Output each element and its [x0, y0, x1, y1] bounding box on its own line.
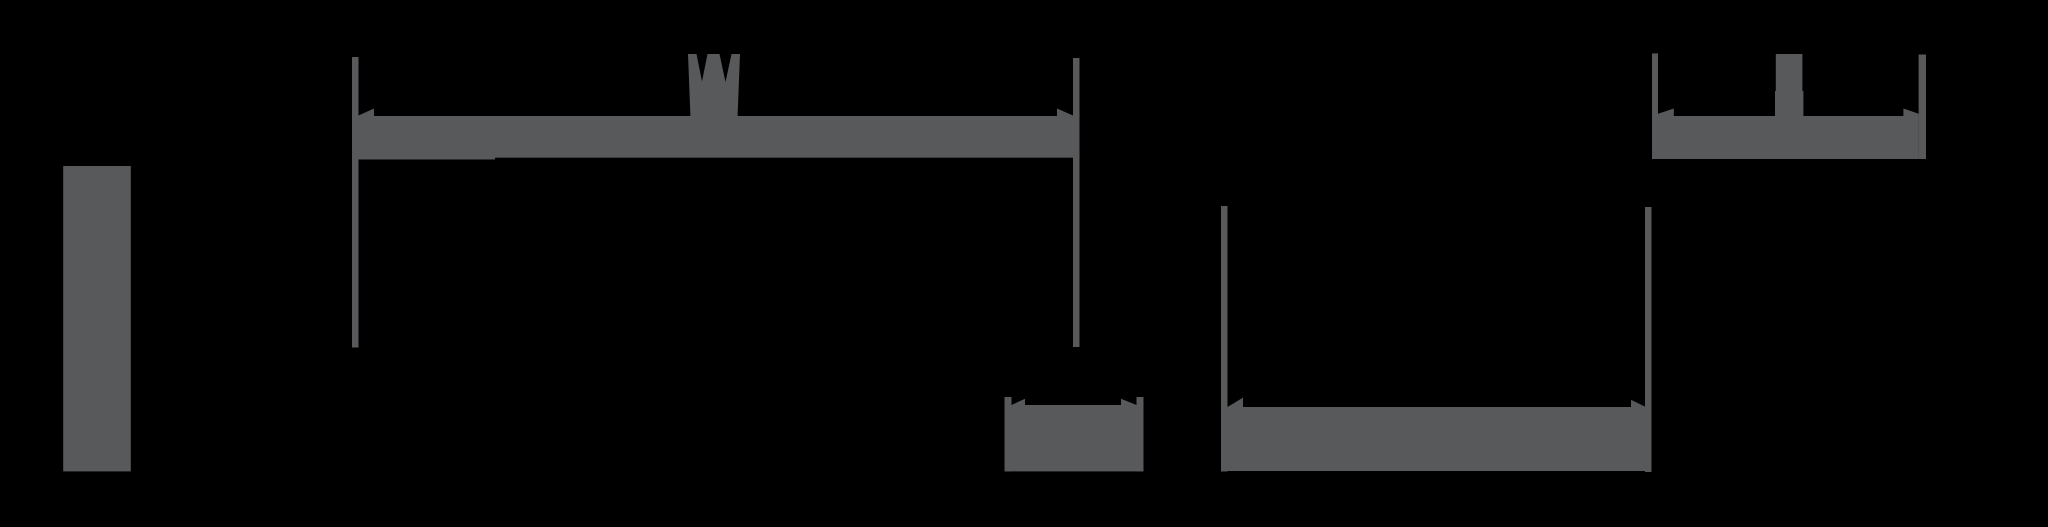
side panel solid rectangle	[63, 166, 131, 471]
bottom-middle dimension left arrow flare	[1012, 399, 1026, 405]
top-right dimension left arrow flare	[1658, 109, 1674, 117]
W dimension bar left segment	[359, 116, 496, 160]
top-right dimension left extension line	[1652, 53, 1658, 159]
label I base	[1775, 91, 1803, 159]
top-right dimension right extension line	[1919, 55, 1926, 160]
label W	[688, 54, 740, 118]
top-right dimension right arrow flare	[1903, 109, 1918, 117]
bottom-right dimension right arrow flare	[1631, 400, 1645, 407]
bottom-middle dimension right extension line	[1137, 397, 1144, 471]
top-right dimension bar	[1658, 116, 1919, 159]
bottom-middle dimension left extension line	[1005, 397, 1012, 471]
label I stem	[1776, 54, 1803, 116]
bottom-right dimension bar block	[1228, 407, 1646, 471]
W dimension left extension line	[352, 57, 359, 348]
bottom-middle dimension bar block	[1005, 405, 1144, 471]
bottom-right dimension right extension line	[1645, 207, 1652, 472]
bottom-right dimension left extension line	[1221, 206, 1228, 472]
W dimension left arrow flare	[359, 109, 375, 117]
bottom-right dimension left arrow flare	[1228, 398, 1244, 407]
bottom-middle dimension right arrow flare	[1121, 399, 1137, 405]
W dimension right extension line	[1073, 58, 1080, 347]
W dimension right arrow flare	[1057, 109, 1073, 117]
W dimension bar right segment	[495, 116, 1073, 158]
